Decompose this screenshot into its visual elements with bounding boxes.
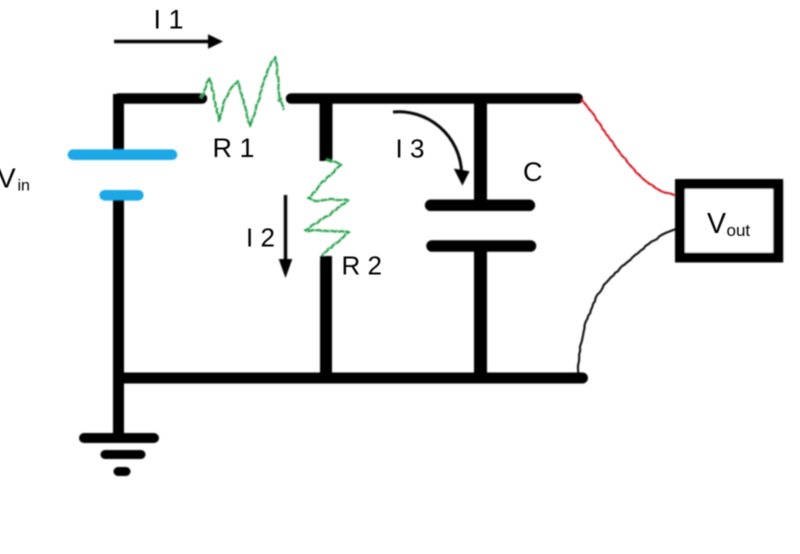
- svg-text:I 3: I 3: [396, 133, 425, 163]
- current arrow I1: [114, 34, 223, 49]
- wire bottom rail: [124, 373, 583, 384]
- svg-text:R 1: R 1: [213, 133, 255, 163]
- wire battery bottom vertical: [113, 200, 124, 383]
- label V_in: [0, 163, 30, 195]
- svg-text:I 1: I 1: [154, 4, 184, 34]
- ground bar 1: [84, 433, 154, 443]
- svg-text:R 2: R 2: [342, 251, 382, 281]
- svg-text:I 2: I 2: [246, 223, 275, 253]
- ground bar 2: [105, 450, 141, 459]
- svg-text:C: C: [523, 157, 543, 187]
- capacitor C top plate: [431, 200, 530, 212]
- wire battery top vertical: [113, 94, 124, 150]
- svg-text:V: V: [707, 208, 726, 240]
- svg-text:in: in: [18, 178, 30, 195]
- capacitor C bottom plate: [432, 240, 531, 252]
- wire top-left segment (battery top to R1): [119, 93, 203, 104]
- wire red (top rail to V_out +): [581, 99, 676, 196]
- ground bar 3: [118, 467, 126, 476]
- battery V_in bottom plate (short blue bar): [105, 190, 139, 201]
- current arrow I2: [279, 195, 293, 278]
- wire black curved (bottom rail to V_out -): [578, 229, 676, 373]
- resistor R1 (green zigzag): [201, 57, 284, 126]
- wire top-right segment (R1 to right end): [291, 93, 578, 104]
- wire capacitor branch lower: [474, 241, 487, 383]
- svg-text:out: out: [727, 221, 751, 240]
- label V_out: [707, 208, 750, 240]
- svg-text:V: V: [0, 163, 16, 194]
- wire R2 branch upper stub: [320, 98, 333, 161]
- wire capacitor branch upper: [474, 98, 487, 200]
- current arrow I3 (curved): [393, 112, 470, 186]
- V_out box: [680, 184, 778, 258]
- battery V_in top plate (long blue bar): [73, 149, 172, 160]
- resistor R2 (green zigzag): [305, 160, 349, 260]
- wire ground stem: [113, 378, 124, 434]
- wire R2 branch lower stub: [320, 256, 332, 383]
